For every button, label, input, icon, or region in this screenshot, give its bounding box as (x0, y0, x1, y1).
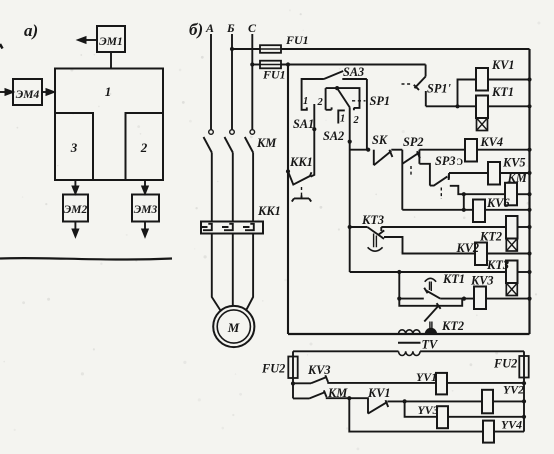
svg-text:SP3: SP3 (435, 154, 456, 168)
KT3 blade tick (379, 230, 385, 234)
KV1 contact tick (386, 400, 389, 407)
wire SP1' to node (426, 105, 458, 107)
wire KT1 to rail (488, 105, 530, 107)
node KV4 rail (527, 148, 531, 152)
wire KT3 row (350, 271, 506, 273)
SP3 blade tick (448, 175, 450, 180)
wire to KV6 (402, 209, 473, 211)
KT3 delay umbrella (368, 247, 383, 251)
wire C to fuse (252, 64, 260, 66)
relay coil KT3 (506, 261, 518, 284)
wire KM contact to node (326, 397, 350, 399)
KT2 delay umbrella (425, 328, 436, 334)
block EM1 (97, 26, 125, 52)
wire KT1 contact to KV3 (440, 298, 474, 300)
fuse FU1 lower (260, 61, 281, 69)
KV3 contact tick (325, 375, 328, 382)
wire SP2 to KV4 (419, 149, 465, 151)
svg-text:ЭМ3: ЭМ3 (134, 204, 158, 216)
node KT3 row branch (397, 270, 401, 274)
svg-text:ЭМ2: ЭМ2 (64, 204, 88, 216)
SP1 linkage dashes (352, 100, 366, 102)
KK1 fixed contact hook (311, 104, 315, 177)
node KT1 contact row (397, 297, 401, 301)
svg-text:SA1: SA1 (293, 117, 314, 131)
KT3 delay stem (374, 234, 377, 248)
solenoid YV1 (436, 373, 447, 395)
node SA2 common (348, 140, 352, 144)
wire YV1 to right (447, 382, 524, 384)
svg-text:2: 2 (140, 140, 148, 155)
transformer TV primary winding (399, 330, 421, 334)
svg-text:SA2: SA2 (323, 129, 344, 143)
contactor KM pole B (230, 130, 235, 135)
svg-text:YV3: YV3 (418, 403, 439, 417)
switch SK blade (374, 151, 392, 165)
motor M inner circle (217, 310, 250, 343)
wire KV2 to rail (487, 253, 530, 255)
wire to KT1 coil (458, 105, 477, 107)
wire right drop rail (523, 383, 525, 431)
svg-text:SK: SK (372, 133, 388, 147)
relay coil KM (505, 183, 517, 206)
svg-text:КМ: КМ (256, 136, 277, 150)
wire KV6 to rail (485, 209, 530, 211)
wire step to KM row (450, 186, 505, 194)
switch SK drop (373, 150, 375, 166)
block 3 (55, 113, 93, 180)
svg-text:КК1: КК1 (289, 155, 313, 169)
node YV2/YV3 branch (403, 399, 407, 403)
wire FU2 down to KM contact (292, 384, 294, 399)
svg-text:KV6: KV6 (486, 196, 510, 210)
node on phase B (230, 47, 234, 51)
wire KT3 shelf (384, 237, 475, 254)
wire YV3 to rail (448, 416, 524, 418)
KT2 delay stem (430, 322, 432, 330)
svg-text:а): а) (24, 21, 38, 40)
timer element of KT3 (506, 283, 517, 296)
svg-text:YV4: YV4 (501, 418, 522, 432)
svg-text:KV2: KV2 (456, 241, 480, 255)
KK1 manual reset symbol (292, 196, 311, 202)
switch SP1' blade (415, 77, 426, 89)
svg-text:FU1: FU1 (285, 33, 309, 47)
solenoid YV4 (483, 421, 494, 443)
svg-text:FU2: FU2 (493, 357, 517, 371)
wire SP3 approach (419, 164, 430, 186)
wire KV5 to rail (500, 172, 530, 174)
node KT1 rail (527, 104, 531, 108)
node on phase C (250, 62, 254, 66)
KT2 blade tick (437, 303, 441, 309)
node KK1 on left rail (286, 169, 290, 173)
contact KM blade (310, 392, 326, 398)
KK1 reset linkage dashes (301, 187, 303, 196)
switch SP3 blade (430, 177, 447, 186)
node KT2 row left (348, 225, 352, 229)
svg-text:КТ3: КТ3 (486, 258, 509, 272)
svg-text:KV3: KV3 (470, 274, 494, 288)
svg-text:1: 1 (105, 84, 112, 99)
node SA1 common (312, 127, 316, 131)
svg-text:KV1: KV1 (367, 386, 391, 400)
arrow block 2 to EM3 (144, 180, 146, 188)
wire SA3 to SP1 leg (342, 78, 367, 80)
switch SP1 blade (337, 88, 350, 108)
node KV6 row (462, 208, 466, 212)
wire EM1 to block 1 (110, 52, 112, 69)
block EM2 (63, 195, 88, 222)
arrow below EM2 (74, 222, 76, 231)
wire SK to SP2 corner (391, 149, 402, 151)
wire branch down (398, 272, 400, 299)
relay coil KV4 (465, 139, 477, 162)
KK1 heater element C (243, 224, 254, 230)
wire bottom rail (288, 333, 530, 335)
thermal contact KK1 blade (288, 171, 312, 184)
wire KV1 contact to YV2 (387, 400, 482, 402)
relay coil KV5 (488, 162, 500, 185)
node KV3 branch (462, 297, 466, 301)
wire YV4 to rail (494, 431, 524, 433)
block 1 outline (55, 69, 163, 181)
wire A below KM (211, 153, 213, 222)
svg-text:SP2: SP2 (403, 135, 424, 149)
node KM contact out (347, 396, 351, 400)
node KV6 rail (527, 208, 531, 212)
wire SP2 vertical (401, 150, 403, 210)
relay coil KV3 (474, 287, 486, 310)
SP3 fixed stub (448, 173, 450, 179)
timed contact KT2 blade (424, 306, 438, 322)
relay coil KV2 (475, 243, 487, 266)
wire KV4 to rail (477, 149, 530, 151)
KT3 fixed stub (380, 227, 382, 231)
wire B to fuse (232, 48, 260, 50)
wire SA2 common (349, 108, 351, 272)
wire KM to rail (517, 193, 530, 195)
svg-text:ТV: ТV (422, 338, 440, 352)
SP1' linkage dashes (402, 83, 413, 85)
wire to KM contact (293, 397, 310, 399)
svg-text:FU1: FU1 (262, 68, 286, 82)
wire KT3 coil to rail (518, 271, 530, 273)
svg-text:2: 2 (317, 97, 324, 108)
arrow into EM4 (0, 91, 7, 93)
phase C wire (251, 34, 253, 129)
wire KV1 to rail (488, 79, 530, 81)
svg-text:KV4: KV4 (480, 135, 504, 149)
wire second rail (281, 64, 426, 66)
node below FU2 left (291, 381, 295, 385)
wire SP1 right leg (366, 79, 368, 150)
switch SA3 blade (324, 71, 343, 79)
wire KM node to KV6 row (463, 194, 465, 210)
relay coil KT2 (506, 216, 518, 239)
wire rail2 corner to SP1' (425, 65, 427, 77)
SP3 linkage dashes (440, 188, 442, 200)
left edge scan mark (0, 44, 3, 49)
wire A to motor (212, 234, 221, 311)
block EM4 (13, 79, 42, 105)
separator line (0, 258, 172, 259)
relay coil KT1 (476, 96, 488, 119)
svg-text:КТ3: КТ3 (361, 213, 384, 227)
svg-text:YV1: YV1 (416, 370, 437, 384)
svg-text:1: 1 (303, 96, 308, 107)
KM contact tick (324, 390, 327, 397)
wire secondary to FU2 left (292, 351, 294, 383)
phase B wire (231, 34, 233, 129)
node KV1/KT1 branch (455, 104, 459, 108)
svg-text:КТ1: КТ1 (491, 85, 514, 99)
fuse FU1 upper (260, 45, 281, 53)
timed contact KT3 blade (367, 227, 384, 239)
switch SA2 position 1 bracket (338, 110, 345, 123)
svg-text:КТ2: КТ2 (479, 230, 502, 244)
wire C below KM (252, 153, 254, 222)
SP2 linkage dashes (410, 166, 412, 177)
switch SA2 position 2 bracket (337, 88, 359, 110)
SP2 blade tick (417, 151, 420, 158)
node KM row (462, 192, 466, 196)
KT1 delay stem (430, 282, 432, 292)
wire up to KV1 (458, 80, 477, 107)
svg-text:КТ2: КТ2 (441, 319, 464, 333)
svg-text:KV5: KV5 (502, 156, 526, 170)
svg-text:SP1': SP1' (427, 82, 451, 96)
wire secondary left (293, 350, 399, 352)
svg-text:Б: Б (226, 21, 235, 35)
phase A wire (210, 34, 212, 129)
solenoid YV3 (437, 406, 448, 428)
svg-text:ЭМ4: ЭМ4 (16, 89, 40, 101)
wire to KV3 contact (293, 382, 311, 384)
contact KV1 blade (368, 402, 387, 414)
wire node down to YV4 (349, 398, 483, 431)
wire to KT3 contact (350, 226, 368, 228)
wire KV3 to rail (486, 298, 530, 300)
SP1' blade tick (414, 85, 419, 90)
wire B to motor (232, 234, 234, 306)
node second rail left (286, 62, 290, 66)
KT1 blade tick (424, 288, 427, 293)
contactor KM pole C (250, 130, 255, 135)
svg-text:КК1: КК1 (257, 204, 281, 218)
wire KT3 to KT2 coil (381, 226, 506, 228)
wire KV3 contact to YV1 (327, 382, 436, 384)
node YV3 rail (522, 415, 526, 419)
svg-text:1: 1 (340, 114, 345, 125)
relay coil KV1 (476, 68, 488, 91)
transformer TV core (398, 342, 421, 344)
solenoid YV2 (482, 390, 493, 414)
wire YV2 to rail (493, 400, 524, 402)
svg-text:ЭМ1: ЭМ1 (99, 36, 122, 48)
svg-text:3: 3 (70, 140, 78, 155)
timer element of KT1 (477, 118, 488, 131)
svg-text:М: М (227, 320, 240, 335)
arrow block 3 to EM2 (74, 180, 76, 188)
wire SP3 shelf to KV5 (449, 172, 488, 174)
fuse FU2 right (519, 356, 528, 378)
svg-text:б): б) (189, 20, 203, 39)
arrow out of EM1 (84, 39, 97, 41)
SK blade tick (389, 150, 392, 157)
svg-text:Ɔ: Ɔ (457, 157, 464, 167)
contact KV3 blade (311, 377, 327, 383)
motor M outer circle (213, 306, 254, 347)
fuse FU2 left (288, 357, 297, 379)
switch SP2 blade (402, 153, 419, 164)
KK1 heater element A (201, 224, 212, 230)
node SA1-SP1 junction (335, 86, 339, 90)
node KV3 rail (527, 297, 531, 301)
wire C to motor (246, 234, 253, 311)
node KV5 rail (527, 171, 531, 175)
svg-text:KV3: KV3 (307, 363, 331, 377)
svg-text:С: С (248, 21, 257, 35)
wire B below KM (232, 153, 234, 222)
KK1 heater element B (222, 224, 233, 230)
wire SP1' lower (425, 91, 427, 106)
KT1 delay umbrella (425, 278, 436, 282)
KT2 contact bar (399, 299, 462, 306)
svg-text:SP1: SP1 (370, 94, 391, 108)
wire node to KV1 contact (349, 398, 368, 413)
timed contact KT1 blade (426, 290, 440, 298)
node KM rail (527, 192, 531, 196)
node KV2 rail (527, 251, 531, 255)
svg-text:А: А (205, 21, 214, 35)
node KT3 rail (527, 270, 531, 274)
arrow EM4 to block 1 (42, 91, 48, 93)
svg-text:FU2: FU2 (261, 362, 285, 376)
wire top rail (281, 48, 530, 50)
block EM3 (132, 195, 159, 222)
wire to KT1 contact (399, 298, 424, 300)
wire right rail (528, 49, 530, 334)
node KV1 rail (527, 77, 531, 81)
wire left rail (287, 65, 289, 335)
switch SA1 position 1 bracket (302, 79, 324, 110)
svg-text:SA3: SA3 (343, 65, 364, 79)
svg-text:KV1: KV1 (491, 58, 515, 72)
node KT2 rail (527, 225, 531, 229)
contactor KM pole A (209, 130, 214, 135)
relay coil KV6 (473, 200, 485, 223)
node SK (366, 148, 370, 152)
wire secondary to FU2 right (523, 351, 525, 383)
thermal relay KK1 heater block (201, 222, 263, 234)
svg-text:КТ1: КТ1 (442, 272, 465, 286)
svg-text:2: 2 (353, 115, 360, 126)
arrow below EM3 (144, 222, 146, 231)
SP2 fixed stub (418, 150, 420, 164)
wire KT2 to rail (518, 226, 530, 228)
block 2 (126, 113, 164, 180)
node YV2 rail (522, 399, 526, 403)
wire secondary right (420, 350, 524, 352)
svg-text:YV2: YV2 (503, 383, 524, 397)
wire SA2 to SK node (350, 149, 369, 151)
wire branch to YV3 (405, 401, 437, 416)
switch SA1 position 2 bracket (326, 88, 338, 110)
node below FU2 right (522, 381, 526, 385)
svg-text:КМ: КМ (507, 171, 528, 185)
timer element of KT2 (506, 239, 517, 252)
transformer TV secondary winding (399, 351, 421, 355)
